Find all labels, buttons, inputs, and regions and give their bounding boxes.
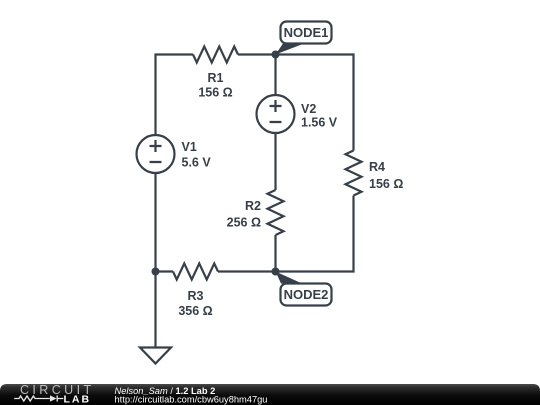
svg-text:R4: R4 (369, 160, 385, 174)
svg-text:NODE1: NODE1 (284, 25, 329, 40)
svg-text:R1: R1 (208, 71, 224, 85)
svg-text:356 Ω: 356 Ω (178, 304, 212, 318)
svg-text:5.6 V: 5.6 V (182, 156, 212, 170)
svg-text:R2: R2 (245, 199, 261, 213)
svg-text:http://circuitlab.com/cbw6uy8h: http://circuitlab.com/cbw6uy8hm47gu (115, 395, 268, 405)
svg-text:LAB: LAB (64, 394, 92, 405)
svg-text:156 Ω: 156 Ω (198, 86, 232, 100)
svg-text:1.56 V: 1.56 V (301, 116, 338, 130)
svg-text:V1: V1 (182, 140, 197, 154)
svg-text:256 Ω: 256 Ω (227, 216, 261, 230)
svg-text:R3: R3 (188, 289, 204, 303)
svg-text:V2: V2 (301, 102, 316, 116)
svg-text:NODE2: NODE2 (284, 287, 329, 302)
svg-text:156 Ω: 156 Ω (369, 177, 403, 191)
